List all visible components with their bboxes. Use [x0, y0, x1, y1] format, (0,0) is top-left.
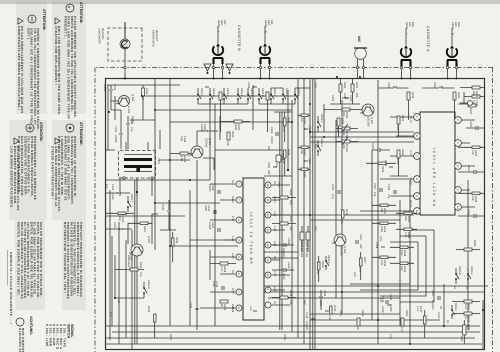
svg-text:R305: R305 — [401, 115, 404, 122]
svg-text:ATTENTION:: ATTENTION: — [79, 2, 83, 24]
svg-text:10µ: 10µ — [373, 192, 376, 197]
svg-text:2SC945: 2SC945 — [205, 138, 208, 148]
svg-text:R301: R301 — [355, 82, 358, 89]
svg-text:C312: C312 — [111, 184, 114, 191]
warn triangle EN — [55, 18, 60, 24]
transistor Q301 — [189, 138, 211, 158]
svg-text:56V: 56V — [303, 300, 306, 305]
svg-text:0.015: 0.015 — [111, 193, 114, 200]
svg-text:C246: C246 — [231, 306, 234, 313]
magnet erase head dashed box — [108, 22, 142, 78]
svg-text:0.5V: 0.5V — [379, 236, 382, 242]
svg-text:S301-5: S301-5 — [327, 255, 330, 264]
head cassette B right channel — [260, 43, 270, 78]
mid vertical rails — [264, 132, 414, 258]
svg-text:L4.5V: L4.5V — [409, 178, 412, 185]
svg-text:47K: 47K — [340, 219, 343, 224]
svg-text:10V: 10V — [105, 184, 108, 189]
svg-text:C242: C242 — [189, 302, 192, 309]
svg-text:D302 WZ-090: D302 WZ-090 — [300, 241, 303, 258]
svg-text:R325: R325 — [405, 310, 408, 317]
svg-text:220P: 220P — [204, 205, 207, 211]
svg-text:3.7V: 3.7V — [409, 150, 412, 156]
svg-text:10µ: 10µ — [275, 163, 278, 168]
svg-text:10K: 10K — [300, 150, 303, 155]
svg-text:2200P: 2200P — [114, 135, 117, 143]
svg-text:50V: 50V — [267, 146, 270, 151]
svg-text:470: 470 — [249, 306, 252, 311]
svg-text:S301-1: S301-1 — [297, 88, 300, 97]
transistor Q303 — [332, 234, 346, 256]
svg-text:IC302 TA 7668 BP: IC302 TA 7668 BP — [249, 212, 253, 265]
chassis dash-dot boundary top — [492, 68, 494, 352]
svg-text:82K: 82K — [472, 91, 475, 96]
svg-text:C304: C304 — [270, 127, 273, 134]
svg-text:0.015: 0.015 — [282, 273, 285, 280]
svg-text:1.5K: 1.5K — [180, 156, 183, 162]
svg-text:ATENCIÓN:: ATENCIÓN: — [39, 122, 44, 142]
cluster rail bridges — [298, 114, 311, 178]
long horizontal rails mid — [292, 79, 310, 350]
cluster above IC302 — [272, 182, 296, 305]
cluster below IC301 — [336, 115, 412, 207]
svg-text:1000P: 1000P — [103, 84, 106, 92]
circled minus symbol — [28, 15, 36, 23]
dash-line crossing circles — [455, 66, 457, 68]
cluster right-strip labels — [117, 300, 426, 338]
circled S symbol — [66, 4, 74, 12]
svg-text:ERASE HEAD: ERASE HEAD — [152, 30, 155, 47]
svg-text:10V: 10V — [277, 182, 280, 187]
svg-text:8.2K: 8.2K — [400, 250, 403, 256]
cluster right rails components — [319, 296, 408, 332]
svg-text:100K: 100K — [380, 226, 383, 232]
junction triangle at line entry — [204, 64, 211, 71]
switch S303-2 — [317, 138, 323, 156]
svg-text:0.022: 0.022 — [283, 334, 286, 341]
svg-text:G 304: G 304 — [127, 106, 130, 114]
labels along right rails — [109, 306, 440, 341]
svg-text:R330: R330 — [467, 324, 470, 331]
svg-text:20mV: 20mV — [273, 196, 276, 203]
svg-text:C320: C320 — [319, 300, 322, 307]
svg-text:C211: C211 — [331, 184, 334, 191]
cluster S301-3 switch right of transformer — [115, 255, 150, 298]
svg-text:0.0047: 0.0047 — [270, 136, 273, 144]
svg-text:HEAD: HEAD — [405, 22, 408, 29]
svg-text:S 302 : LINE: S 302 : LINE — [45, 324, 49, 347]
svg-text:2.3V: 2.3V — [273, 241, 276, 247]
svg-text:47K: 47K — [471, 150, 474, 155]
svg-text:R243: R243 — [147, 306, 150, 313]
switch S301-7 — [127, 194, 133, 212]
svg-text:R302: R302 — [343, 82, 346, 89]
svg-text:20mV: 20mV — [231, 196, 234, 203]
transistor Q305 — [127, 236, 150, 268]
cluster head A coupling — [378, 82, 460, 120]
svg-text:CASSETTE A: CASSETTE A — [426, 26, 430, 52]
svg-text:C322: C322 — [469, 121, 472, 128]
svg-text:(0.7V): (0.7V) — [131, 116, 134, 123]
svg-text:18K: 18K — [380, 208, 383, 213]
svg-text:HEAD: HEAD — [217, 20, 220, 27]
svg-text:S303-2: S303-2 — [320, 138, 323, 147]
svg-text:R319: R319 — [333, 305, 336, 312]
svg-text:C315: C315 — [114, 126, 117, 133]
svg-text:220K: 220K — [234, 124, 237, 130]
cluster oscillator — [103, 84, 180, 149]
cluster top right switches — [431, 240, 480, 326]
svg-text:S302-1: S302-1 — [454, 303, 457, 312]
svg-text:22K: 22K — [226, 141, 229, 146]
svg-text:C321: C321 — [467, 165, 470, 172]
warn triangle FR — [18, 18, 23, 24]
svg-text:C333: C333 — [247, 82, 250, 89]
svg-text:R232: R232 — [303, 172, 306, 179]
svg-text:S301-5: S301-5 — [273, 88, 276, 97]
svg-text:4.7K: 4.7K — [404, 232, 407, 238]
svg-text:S301-8: S301-8 — [250, 88, 253, 97]
vertical connectors lower — [106, 96, 310, 246]
svg-text:56K: 56K — [342, 112, 345, 117]
svg-text:5.6K: 5.6K — [380, 260, 383, 266]
svg-text:2.2V: 2.2V — [231, 253, 234, 259]
svg-text:R310: R310 — [231, 131, 234, 138]
svg-text:R207: R207 — [363, 257, 366, 264]
svg-text:22K: 22K — [404, 216, 407, 221]
scanner gray strip at top edge — [0, 0, 500, 4]
svg-text:R321: R321 — [469, 108, 472, 115]
svg-text:33P: 33P — [359, 244, 362, 249]
svg-text:4.7µ: 4.7µ — [389, 334, 392, 340]
svg-text:10K: 10K — [328, 315, 331, 320]
svg-text:56K: 56K — [355, 93, 358, 98]
cluster rec eq — [264, 112, 292, 176]
chassis dash-dot boundary left — [96, 67, 493, 69]
svg-text:47µ: 47µ — [387, 194, 390, 199]
cluster head B coupling — [206, 82, 269, 132]
svg-text:10K: 10K — [471, 196, 474, 201]
svg-text:R317: R317 — [289, 216, 292, 223]
svg-text:COMPOSANTS DES MÊMES SPECIFI: COMPOSANTS DES MÊMES SPECIFICATIONS ! — [17, 26, 21, 111]
svg-text:STESSE CARATTERISTICHE !: STESSE CARATTERISTICHE ! — [51, 146, 55, 199]
svg-text:S302-3: S302-3 — [470, 266, 473, 275]
svg-text:22K: 22K — [289, 300, 292, 305]
svg-text:1.3V: 1.3V — [273, 211, 276, 217]
svg-text:33P: 33P — [267, 170, 270, 175]
svg-text:3.3µ: 3.3µ — [180, 136, 183, 142]
svg-text:R332: R332 — [411, 92, 414, 99]
svg-text:47µ: 47µ — [109, 312, 112, 317]
svg-text:R244: R244 — [339, 310, 342, 317]
svg-text:R211: R211 — [345, 209, 348, 216]
svg-text:R315: R315 — [145, 88, 148, 95]
svg-text:C231: C231 — [308, 158, 311, 165]
svg-text:12V: 12V — [353, 272, 356, 277]
svg-text:L3.7V: L3.7V — [409, 116, 412, 123]
svg-text:1000P: 1000P — [208, 184, 211, 192]
svg-text:PRODUCT ).: PRODUCT ). — [63, 16, 67, 38]
svg-text:4.7K: 4.7K — [416, 306, 419, 312]
PCB frame — [106, 79, 485, 350]
svg-text:ACHTUNG:: ACHTUNG: — [29, 316, 33, 335]
svg-text:470: 470 — [400, 327, 403, 332]
svg-text:15K: 15K — [400, 266, 403, 271]
upper horizontal rails — [336, 80, 410, 344]
svg-text:270: 270 — [139, 272, 142, 277]
svg-text:6.2V: 6.2V — [273, 286, 276, 292]
svg-text:2SC458: 2SC458 — [367, 117, 370, 127]
svg-text:MIC: MIC — [357, 36, 361, 43]
svg-text:C306: C306 — [387, 184, 390, 191]
svg-text:R245: R245 — [169, 334, 172, 341]
svg-text:S301-7: S301-7 — [130, 194, 133, 203]
svg-text:10V: 10V — [314, 83, 317, 88]
svg-text:S301-B: S301-B — [212, 88, 215, 97]
svg-text:4.7V: 4.7V — [273, 271, 276, 277]
svg-text:CASSETTE B: CASSETTE B — [237, 25, 241, 51]
svg-text:IC301 µPC 1228 HA: IC301 µPC 1228 HA — [432, 148, 436, 208]
svg-text:22K: 22K — [289, 226, 292, 231]
svg-text:GLEICHER SPEZIF.: GLEICHER SPEZIF. — [18, 328, 22, 352]
svg-text:RATTERISTICHE TECNICHE DEL TIP: RATTERISTICHE TECNICHE DEL TIPO ! — [63, 222, 67, 293]
svg-text:C310: C310 — [287, 262, 290, 269]
svg-text:R304: R304 — [341, 118, 344, 125]
svg-text:470: 470 — [300, 118, 303, 123]
svg-text:1.2V: 1.2V — [231, 236, 234, 242]
svg-text:0V: 0V — [231, 180, 234, 183]
switch S301-4 and switch S301-B — [210, 88, 227, 104]
svg-text:C308: C308 — [375, 242, 378, 249]
svg-text:4700P: 4700P — [389, 304, 392, 312]
switches S301-1 S301-2 S301-5 S301-D — [259, 88, 298, 104]
svg-text:Q 304: Q 304 — [131, 94, 134, 102]
svg-text:R236: R236 — [175, 237, 178, 244]
svg-text:1.3V: 1.3V — [273, 226, 276, 232]
svg-text:T301: T301 — [157, 158, 160, 164]
svg-text:C323: C323 — [467, 209, 470, 216]
switch S303-1 — [317, 114, 323, 132]
head cassette A right channel — [447, 45, 457, 78]
svg-text:R307: R307 — [287, 117, 290, 124]
mic jack — [336, 48, 367, 78]
vertical rails near right — [264, 286, 488, 298]
cluster bottom mid caps — [105, 184, 134, 230]
cluster switch column S301 — [197, 88, 310, 104]
svg-text:S303-1: S303-1 — [320, 114, 323, 123]
svg-text:10K: 10K — [118, 216, 121, 221]
cluster around Q301 — [170, 116, 250, 170]
svg-text:R319: R319 — [139, 262, 142, 269]
svg-text:R334: R334 — [381, 166, 384, 173]
svg-text:C317: C317 — [431, 290, 434, 297]
extra labels row right of IC302 — [305, 255, 336, 330]
svg-text:S301-A: S301-A — [200, 88, 203, 97]
svg-text:0V: 0V — [273, 181, 276, 184]
svg-text:LAS MISMAS ESPECIFICACIONES.: LAS MISMAS ESPECIFICACIONES. — [10, 146, 14, 209]
switch S301-A — [198, 88, 201, 104]
extra long rails — [137, 79, 468, 350]
svg-text:1K: 1K — [464, 316, 467, 319]
cluster below IC302 — [204, 184, 236, 311]
svg-text:R318: R318 — [289, 290, 292, 297]
svg-text:R: R — [451, 33, 454, 35]
svg-text:56K: 56K — [289, 200, 292, 205]
svg-text:C305: C305 — [267, 162, 270, 169]
svg-text:IFICATION FOR REPLACEMENT !: IFICATION FOR REPLACEMENT ! — [54, 26, 58, 86]
transistor Q304 — [116, 94, 134, 114]
switch S301-8 and switch S301-6 — [238, 88, 251, 104]
cluster mid caps — [372, 183, 396, 267]
head cassette B left channel — [213, 43, 223, 78]
svg-text:1K: 1K — [117, 300, 120, 303]
cluster left of Q305 — [128, 200, 178, 262]
top hanging components row — [458, 101, 485, 218]
cluster bottom-right corner (readable top-right) — [110, 190, 484, 349]
svg-text:CONSULTE / UTILICE ÚNICAMENTE: CONSULTE / UTILICE ÚNICAMENTE ... ! — [9, 252, 13, 324]
svg-text:4.7K: 4.7K — [220, 266, 223, 272]
lower horizontal rails — [155, 79, 210, 327]
svg-text:4700P: 4700P — [208, 222, 211, 230]
extra connectors switch matrix — [253, 85, 289, 171]
svg-text:R329: R329 — [473, 240, 476, 247]
svg-text:R308: R308 — [287, 149, 290, 156]
svg-text:C311: C311 — [113, 222, 116, 229]
svg-text:1K: 1K — [141, 97, 144, 100]
svg-text:S301-6: S301-6 — [240, 88, 243, 97]
svg-text:R: R — [264, 31, 267, 33]
svg-text:R331: R331 — [457, 92, 460, 99]
svg-text:4.7µ: 4.7µ — [331, 194, 334, 200]
cluster mid caps 2 — [331, 184, 392, 312]
svg-text:50V: 50V — [314, 144, 317, 149]
svg-text:ATTENZIONE:: ATTENZIONE: — [79, 122, 83, 146]
cluster right-mid resistors — [390, 212, 417, 273]
svg-text:C302: C302 — [331, 95, 334, 102]
svg-text:D301 WZ-090: D301 WZ-090 — [305, 241, 308, 258]
svg-text:C230: C230 — [161, 204, 164, 211]
svg-text:S301-3: S301-3 — [147, 280, 150, 289]
svg-text:C314: C314 — [305, 312, 308, 319]
chassis dash-dot boundary bottom — [94, 68, 96, 352]
svg-text:S301-2: S301-2 — [285, 88, 288, 97]
svg-text:C324: C324 — [371, 143, 374, 150]
svg-text:R320: R320 — [321, 261, 324, 268]
svg-text:C309: C309 — [287, 238, 290, 245]
svg-text:MENTES. POR EJEMPLO VDE 0860 /: MENTES. POR EJEMPLO VDE 0860 / IEC. — [17, 222, 21, 296]
extra junction triangle — [226, 64, 233, 71]
svg-text:C301: C301 — [349, 95, 352, 102]
transistor Q302 — [360, 104, 374, 127]
svg-text:470P: 470P — [212, 281, 215, 287]
svg-text:R4.5V: R4.5V — [409, 200, 412, 207]
svg-text:S: S — [67, 6, 71, 8]
svg-text:R306: R306 — [401, 149, 404, 156]
voltage labels on IC pins — [129, 83, 317, 310]
svg-text:12V: 12V — [379, 298, 382, 303]
svg-text:(0.7V): (0.7V) — [129, 253, 132, 260]
svg-text:DUIT ).: DUIT ). — [26, 28, 30, 41]
cluster top-left: input filter — [458, 86, 485, 115]
svg-text:0V: 0V — [231, 270, 234, 273]
svg-text:0V: 0V — [273, 301, 276, 304]
oscillator bottom wires — [106, 85, 185, 216]
svg-text:VDE 0860 / IEC 65 ( CONCERNANT: VDE 0860 / IEC 65 ( CONCERNANT LE TYPE D… — [30, 28, 34, 125]
svg-text:ATTENTION:: ATTENTION: — [42, 9, 46, 31]
svg-text:S301-4: S301-4 — [226, 88, 229, 97]
svg-text:C318: C318 — [281, 154, 284, 161]
svg-text:2SC458: 2SC458 — [340, 246, 343, 256]
svg-text:47µ50V: 47µ50V — [305, 321, 308, 330]
svg-text:4.7K: 4.7K — [464, 304, 467, 310]
svg-text:0.022: 0.022 — [381, 306, 384, 313]
svg-text:4.7V: 4.7V — [231, 288, 234, 294]
svg-text:C303: C303 — [389, 294, 392, 301]
svg-text:C307: C307 — [373, 183, 376, 190]
svg-text:1.3V: 1.3V — [231, 216, 234, 222]
head cassette A left channel — [401, 45, 411, 78]
svg-text:C241: C241 — [437, 312, 440, 319]
horizontal bundle lower right — [112, 222, 132, 349]
svg-text:C315: C315 — [323, 290, 326, 297]
svg-text:10µ/50V: 10µ/50V — [282, 248, 285, 258]
cluster zener diodes — [300, 226, 310, 258]
svg-text:S301-D: S301-D — [261, 88, 264, 97]
svg-text:10V: 10V — [314, 226, 317, 231]
svg-text:Q 305: Q 305 — [147, 236, 150, 244]
svg-text:HEAD: HEAD — [264, 20, 267, 27]
svg-text:LÖSCHKOPF: LÖSCHKOPF — [98, 28, 102, 44]
svg-text:HEAD: HEAD — [451, 22, 454, 29]
cluster under IC301 mid — [366, 143, 396, 173]
svg-text:47µ: 47µ — [130, 127, 133, 132]
svg-text:R323: R323 — [361, 310, 364, 317]
svg-text:R237: R237 — [143, 226, 146, 233]
svg-text:3.3K: 3.3K — [343, 93, 346, 99]
svg-text:0V: 0V — [273, 256, 276, 259]
svg-text:R316: R316 — [289, 189, 292, 196]
frame edge dots — [124, 78, 458, 80]
staircase wires — [350, 230, 434, 302]
svg-text:1K: 1K — [356, 327, 359, 330]
svg-text:S302-B: S302-B — [458, 266, 461, 275]
right side vertical rails — [106, 314, 482, 344]
svg-text:6.8K: 6.8K — [460, 336, 463, 342]
svg-text:4.7µ50V: 4.7µ50V — [431, 300, 434, 310]
cluster mic preamp — [324, 79, 362, 138]
svg-text:C207: C207 — [359, 234, 362, 241]
